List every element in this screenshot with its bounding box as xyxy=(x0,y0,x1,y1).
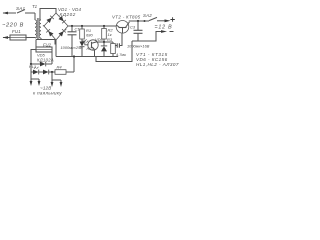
svg-text:FU2: FU2 xyxy=(43,43,52,48)
svg-text:VT2 - КТ805: VT2 - КТ805 xyxy=(112,15,141,20)
wire fuse to primary bottom xyxy=(26,37,35,40)
wire secondary top tap to bridge left vertex xyxy=(43,25,45,27)
bridge diode bottom-right VD4 xyxy=(58,29,65,37)
svg-text:HL1,HL2 - АЛ307: HL1,HL2 - АЛ307 xyxy=(136,62,179,67)
diode VD5 row xyxy=(31,62,52,67)
transformer secondary winding xyxy=(39,20,41,38)
svg-text:C3: C3 xyxy=(130,25,136,30)
svg-text:VD6: VD6 xyxy=(95,37,104,42)
output terminal minus arrow xyxy=(161,30,174,33)
resistor R4 xyxy=(55,70,74,75)
capacitor C2 xyxy=(115,43,119,47)
resistor R2 xyxy=(102,26,107,42)
node line base network xyxy=(97,41,113,43)
node dot row junction left xyxy=(30,63,32,65)
wire VT1 base xyxy=(82,41,89,45)
svg-text:R3: R3 xyxy=(107,37,113,42)
svg-text:T1: T1 xyxy=(32,4,38,9)
node dot row2 xyxy=(51,71,53,73)
input terminal top arrow xyxy=(3,12,17,15)
wire to transformer primary top xyxy=(34,13,36,20)
fuse FU1 xyxy=(10,35,26,40)
link wire to right bottom rail xyxy=(96,41,132,62)
LED HL1 xyxy=(31,64,43,74)
bridge diode top-right VD2 xyxy=(58,16,65,24)
transistor VT2 xyxy=(116,21,129,34)
transistor VT1 xyxy=(88,40,98,51)
fuse FU2 xyxy=(31,47,52,64)
capacitor C3 xyxy=(134,21,143,41)
bridge diode bottom-left VD3 xyxy=(46,29,53,37)
bottom rail left section xyxy=(56,56,118,58)
LED HL2 xyxy=(80,42,85,57)
bottom right rail xyxy=(132,32,164,42)
node dot rail xyxy=(73,55,75,57)
transformer T1 primary winding xyxy=(35,20,37,38)
svg-text:к паяльнику: к паяльнику xyxy=(33,90,62,95)
node dot C3 top xyxy=(137,20,139,22)
svg-text:КД202: КД202 xyxy=(60,12,76,17)
node dot R1 top xyxy=(81,25,83,27)
transformer core xyxy=(37,18,39,40)
svg-text:SA1: SA1 xyxy=(16,6,26,11)
resistor R1 xyxy=(80,26,85,42)
zener diode VD6 xyxy=(101,42,107,57)
wire secondary top to bridge top vertex xyxy=(40,9,56,21)
node dot R2 top xyxy=(103,25,105,27)
svg-text:C1: C1 xyxy=(75,27,80,32)
input terminal bottom arrow xyxy=(3,36,11,39)
node dot C1 top xyxy=(71,25,73,27)
svg-text:+: + xyxy=(65,28,68,33)
svg-text:1000мк×25В: 1000мк×25В xyxy=(61,45,84,50)
svg-text:~220 В: ~220 В xyxy=(2,22,24,28)
svg-text:1000мк×16В: 1000мк×16В xyxy=(127,44,150,49)
switch SA1 xyxy=(17,10,35,14)
wire row2 up to bottom rail xyxy=(73,57,75,73)
capacitor C1 xyxy=(68,26,77,57)
bridge rectifier VD1-VD4 diamond xyxy=(44,13,68,40)
AC output connector left pair xyxy=(30,72,41,86)
wire secondary bottom to bridge bottom xyxy=(36,38,56,50)
AC output connector right pair xyxy=(51,72,63,87)
switch contact dot xyxy=(143,20,145,22)
svg-text:680: 680 xyxy=(86,33,93,38)
diode HL row second xyxy=(43,70,55,75)
svg-text:=12 В: =12 В xyxy=(155,25,173,31)
LED HL2 arrows xyxy=(85,39,88,42)
svg-text:SA2: SA2 xyxy=(143,13,152,18)
wire bridge bottom vertex to bottom rail xyxy=(55,40,57,57)
wire VT1 emitter to bottom rail xyxy=(94,49,96,56)
wire VT2 base xyxy=(120,34,122,46)
svg-text:R4: R4 xyxy=(57,65,63,70)
switch SA2 xyxy=(149,17,167,20)
resistor R3 xyxy=(111,42,116,57)
bridge diode top-left VD1 xyxy=(46,16,53,24)
output terminal plus arrow xyxy=(165,17,175,22)
svg-text:HL1: HL1 xyxy=(29,65,36,69)
top rail from bridge to VT2 xyxy=(68,25,116,27)
node dot zener top xyxy=(103,41,105,43)
svg-text:FU1: FU1 xyxy=(12,29,21,34)
rail VT2 emitter to switch xyxy=(129,20,149,22)
